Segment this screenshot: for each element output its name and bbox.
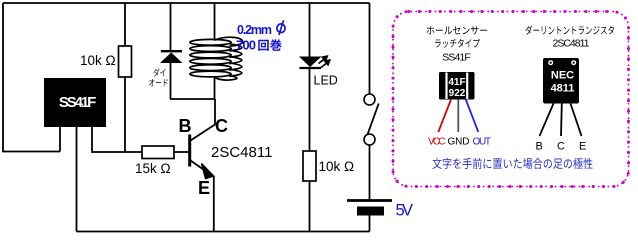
LED D2 branch wire top — [309, 3, 311, 57]
wire: switch branch from top rail — [369, 3, 371, 94]
hall sensor VCC lead (red) — [438, 100, 451, 133]
transistor lead C — [560, 104, 563, 137]
transistor Q1 collector line — [191, 99, 216, 141]
transistor package drawing — [543, 58, 579, 104]
resistor R2 15k body — [142, 146, 174, 159]
label hall sensor heading line2 — [435, 39, 480, 48]
svg-text:B: B — [179, 116, 192, 136]
label darlington heading line1 — [525, 26, 614, 35]
hall sensor package drawing — [439, 72, 475, 100]
wire: LED to R3 — [309, 68, 311, 151]
svg-text:E: E — [198, 178, 210, 198]
svg-text:NEC: NEC — [551, 70, 574, 82]
svg-text:700: 700 — [236, 38, 256, 53]
transistor Q1 emitter line with arrow — [191, 161, 208, 173]
wire: SS41F middle lead (GND) to bottom rail — [76, 127, 78, 232]
LED D2 emission arrows — [319, 56, 330, 67]
transistor lead E — [571, 104, 582, 137]
label hall sensor heading line1 — [427, 26, 487, 34]
transistor Q1 base bar — [188, 135, 191, 167]
LED D2 cathode bar — [300, 67, 322, 69]
diode D1 triangle (pointing up) — [160, 53, 183, 64]
svg-text:VCC: VCC — [428, 137, 446, 148]
diode D1 branch wire — [170, 3, 172, 51]
transistor package hole right — [571, 60, 576, 65]
wire: battery to bottom rail — [369, 216, 371, 232]
inductor L1 bottom wire — [214, 77, 216, 99]
wire: switch to battery — [369, 145, 371, 200]
wire: node diode/coil/collector — [170, 98, 215, 100]
svg-text:SS41F: SS41F — [59, 94, 97, 111]
svg-text:C: C — [557, 141, 565, 153]
svg-text:LED: LED — [314, 74, 338, 88]
svg-text:2SC4811: 2SC4811 — [211, 144, 272, 161]
svg-text:4811: 4811 — [551, 83, 575, 95]
switch SW1 arm — [368, 104, 379, 135]
wire: diode bottom — [170, 63, 172, 99]
pinout info box dashed border — [393, 12, 629, 187]
label polarity note — [432, 158, 592, 169]
svg-text:10k Ω: 10k Ω — [319, 159, 355, 174]
svg-text:E: E — [579, 141, 586, 153]
svg-text:41F: 41F — [448, 77, 465, 88]
svg-text:15k Ω: 15k Ω — [135, 161, 171, 176]
battery BT1 positive plate — [347, 199, 392, 202]
switch SW1 top contact — [364, 94, 375, 105]
hall sensor OUT lead (blue) — [466, 100, 479, 133]
svg-text:GND: GND — [448, 137, 470, 148]
transistor lead B — [540, 104, 554, 137]
inductor L1 coil loops — [190, 37, 243, 80]
label D1 dai-oodo line2 — [149, 79, 168, 86]
wire: SS41F right lead (OUT) — [92, 127, 142, 152]
wire: R1 bottom to OUT net — [124, 77, 126, 152]
svg-text:B: B — [536, 141, 543, 153]
battery BT1 negative plate — [357, 207, 384, 216]
wire: top supply rail — [3, 2, 370, 4]
transistor package hole left — [548, 60, 553, 65]
wire: R3 bottom to rail — [309, 181, 311, 232]
resistor R1 10k body — [119, 46, 132, 77]
svg-text:C: C — [215, 116, 228, 136]
label D1 dai-oodo line1 — [153, 68, 165, 76]
wire: emitter down to bottom rail — [213, 176, 215, 232]
switch SW1 bottom contact — [364, 134, 375, 145]
svg-text:OUT: OUT — [473, 137, 492, 148]
resistor R1 10k pull-up branch wire top — [124, 3, 126, 46]
svg-text:SS41F: SS41F — [442, 52, 471, 64]
svg-text:5V: 5V — [396, 202, 414, 220]
svg-text:10k Ω: 10k Ω — [80, 53, 116, 68]
LED D2 triangle — [299, 57, 322, 68]
svg-text:0.2mm: 0.2mm — [237, 23, 272, 37]
hall sensor U1 SS41F body — [44, 78, 106, 127]
svg-text:2SC4811: 2SC4811 — [553, 38, 590, 50]
hall sensor GND lead (gray) — [457, 100, 459, 133]
wire: bottom ground rail — [77, 231, 370, 233]
wire: SS41F left lead (VCC) — [59, 127, 61, 152]
diode D1 cathode bar — [161, 50, 182, 52]
wire: R2 to transistor base — [174, 151, 189, 153]
wire: left border down to hall sensor VCC lead — [3, 3, 60, 152]
svg-text:922: 922 — [449, 88, 466, 99]
inductor L1 top wire — [214, 3, 216, 41]
resistor R3 10k body — [303, 151, 316, 181]
